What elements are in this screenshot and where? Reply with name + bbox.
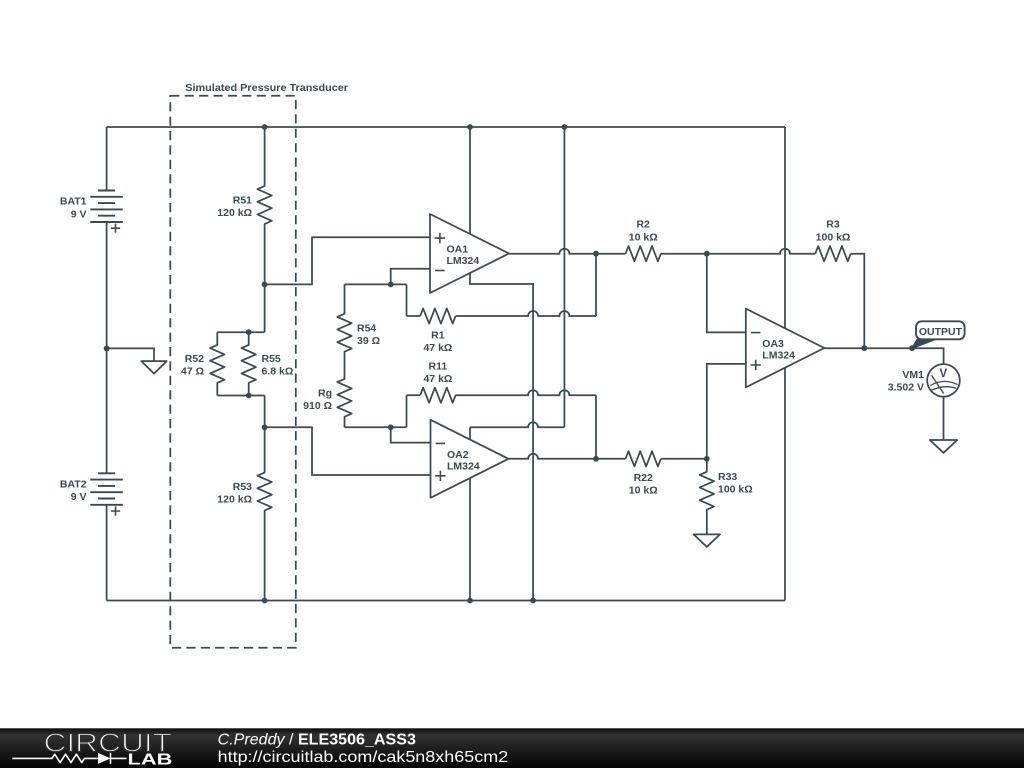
resistor R22 10k (626, 451, 661, 466)
svg-text:LM324: LM324 (447, 255, 480, 267)
resistor Rg 910 (337, 365, 351, 427)
svg-text:V: V (939, 368, 947, 380)
wire OA2 V- stub (469, 478, 471, 600)
svg-text:R22: R22 (634, 472, 653, 484)
svg-text:R55: R55 (262, 353, 281, 365)
svg-text:R52: R52 (185, 353, 204, 365)
wire OA3 output (824, 347, 864, 349)
resistor R53 120k (257, 427, 271, 600)
svg-text:910 Ω: 910 Ω (303, 400, 332, 412)
node OA1 V- on bottom rail (530, 598, 536, 604)
svg-text:R54: R54 (357, 322, 376, 334)
wire OA2 V+ route (469, 427, 471, 439)
op-amp OA3 LM324 (746, 309, 825, 388)
battery BAT1 (98, 190, 115, 192)
svg-text:47 Ω: 47 Ω (181, 366, 204, 378)
resistor R2 10k (626, 246, 661, 261)
node bridge bottom R55 (246, 393, 252, 399)
svg-text:R53: R53 (233, 481, 252, 493)
wire bridge bottom bar (217, 395, 264, 397)
resistor R33 100k (700, 459, 714, 535)
wire R11 left riser (406, 395, 408, 427)
svg-text:3.502 V: 3.502 V (888, 382, 924, 394)
node mid-supply junction (104, 346, 110, 352)
wire node A to OA1 noninverting input (265, 237, 430, 284)
node OA1 output feedback (593, 251, 599, 257)
node OA2 output feedback (593, 456, 599, 462)
resistor R1 47k (407, 315, 421, 317)
svg-text:9 V: 9 V (71, 208, 87, 220)
node OA2 V+ on top rail (562, 124, 568, 130)
wire mid node to BAT2 (106, 348, 108, 473)
node R2/R3 junction (704, 251, 710, 257)
svg-text:10 kΩ: 10 kΩ (629, 485, 658, 497)
svg-text:47 kΩ: 47 kΩ (423, 373, 452, 385)
wire OA2 inverting input (391, 427, 431, 442)
wire top rail (107, 126, 785, 128)
svg-text:Simulated Pressure Transducer: Simulated Pressure Transducer (185, 82, 348, 94)
svg-text:100 kΩ: 100 kΩ (816, 232, 851, 244)
svg-text:R2: R2 (636, 219, 650, 231)
svg-text:OA1: OA1 (447, 244, 469, 256)
wire Rg bottom bar (345, 426, 407, 428)
svg-text:6.8 kΩ: 6.8 kΩ (262, 366, 294, 378)
wire R22 to node (661, 458, 707, 460)
flag OUTPUT pointer (911, 339, 936, 349)
wire R54 top bar (345, 283, 407, 285)
wire BAT2 to bottom rail (106, 505, 108, 601)
svg-text:LAB: LAB (128, 752, 173, 769)
wire OA1 output (509, 249, 596, 254)
wire R1 left riser (406, 284, 408, 316)
node OA3 output / R3 (861, 345, 867, 351)
resistor R55 6.8k (242, 332, 256, 395)
resistor R3 100k (815, 246, 850, 261)
svg-text:LM324: LM324 (762, 350, 795, 362)
svg-text:R3: R3 (826, 219, 840, 231)
wire BAT1 to mid node (106, 222, 108, 348)
svg-text:120 kΩ: 120 kΩ (217, 493, 252, 505)
svg-text:OA3: OA3 (762, 338, 784, 350)
wire to R2 (596, 253, 626, 255)
wire voltmeter to ground (943, 397, 945, 440)
resistor R11 47k (407, 394, 421, 396)
node R22/R33 junction (704, 456, 710, 462)
node OUTPUT flag attach (909, 345, 915, 351)
wire node to R3 (707, 249, 816, 254)
node R53 bottom rail (262, 598, 268, 604)
battery BAT2 (98, 472, 115, 474)
svg-text:R51: R51 (233, 195, 252, 207)
wire OA1 V+ stub (469, 127, 471, 234)
node A bridge + output (262, 282, 268, 288)
wire OA1 V- route (470, 273, 533, 601)
wire OA1 inverting input (391, 269, 430, 285)
wire to mid ground (107, 348, 154, 361)
node OA2 inverting junction (388, 424, 394, 430)
flag OUTPUT box (916, 321, 965, 339)
node B bridge - output (262, 424, 268, 430)
Simulated Pressure Transducer enclosure (170, 96, 295, 648)
wire OA3 V- drop to bottom rail (784, 368, 786, 601)
logo resistor-diode squiggle (12, 754, 98, 762)
wire BAT1 top lead (106, 127, 108, 191)
svg-text:120 kΩ: 120 kΩ (217, 207, 252, 219)
svg-text:OA2: OA2 (447, 449, 469, 461)
wire to R22 (596, 458, 626, 460)
wire R2 to node (661, 253, 707, 255)
svg-text:100 kΩ: 100 kΩ (718, 484, 753, 496)
op-amp OA2 LM324 (431, 420, 509, 498)
svg-text:R33: R33 (718, 471, 737, 483)
wire OA3 V+ drop from top rail (784, 127, 786, 328)
wire R2 node to OA3 inverting input (707, 254, 746, 333)
ground below R33 (694, 534, 720, 546)
node OA1 V+ on rail (467, 124, 473, 130)
wire R3 to output node (851, 254, 865, 349)
resistor R51 120k (257, 127, 271, 284)
resistor R52 47 (210, 332, 224, 395)
wire node A to bridge top (264, 284, 266, 332)
svg-text:10 kΩ: 10 kΩ (629, 232, 658, 244)
voltmeter VM1 (927, 364, 960, 397)
svg-text:9 V: 9 V (71, 491, 87, 503)
svg-text:R11: R11 (429, 361, 448, 373)
node bridge top R55 (246, 329, 252, 335)
node OA2 V- on bottom rail (467, 598, 473, 604)
svg-text:Rg: Rg (318, 387, 332, 399)
ground mid-supply (141, 361, 166, 374)
svg-text:http://circuitlab.com/cak5n8xh: http://circuitlab.com/cak5n8xh65cm2 (218, 749, 509, 766)
node top rail / R51 (262, 124, 268, 130)
svg-text:OUTPUT: OUTPUT (919, 326, 963, 338)
svg-text:C.Preddy / ELE3506_ASS3: C.Preddy / ELE3506_ASS3 (218, 732, 416, 749)
svg-text:BAT1: BAT1 (60, 196, 87, 208)
wire node B to OA2 noninverting input (265, 427, 431, 475)
wire output run (864, 348, 943, 364)
svg-text:47 kΩ: 47 kΩ (423, 342, 452, 354)
wire R11 to OA2 output (feedback) (456, 390, 596, 395)
wire bridge top bar (217, 331, 264, 333)
ground below VM1 (930, 440, 957, 453)
svg-text:VM1: VM1 (902, 369, 924, 381)
resistor R54 39 (337, 284, 351, 365)
wire OA2 output (509, 454, 597, 459)
node OA1 inverting junction (388, 282, 394, 288)
wire R1 to OA1 output (feedback) (456, 311, 596, 316)
svg-text:LM324: LM324 (447, 460, 480, 472)
svg-text:39 Ω: 39 Ω (357, 335, 380, 347)
wire node to OA3 noninverting input (707, 364, 746, 459)
wire bridge bottom to node B (264, 396, 266, 428)
wire bottom rail (107, 600, 785, 602)
svg-text:BAT2: BAT2 (60, 478, 87, 490)
svg-text:R1: R1 (431, 330, 445, 342)
op-amp OA1 LM324 (430, 214, 509, 293)
